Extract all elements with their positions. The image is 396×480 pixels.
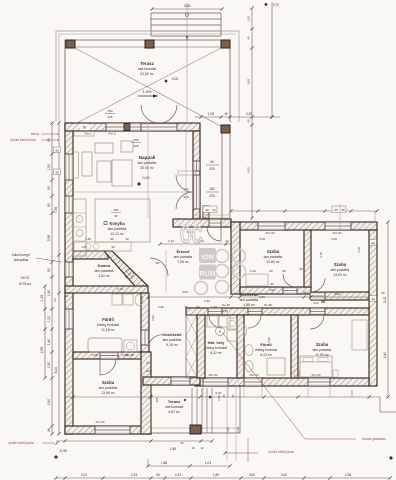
svg-text:95: 95 — [114, 214, 118, 218]
svg-text:13,60 m²: 13,60 m² — [333, 273, 347, 277]
svg-text:40: 40 — [224, 112, 228, 116]
kitchen lower counter — [74, 242, 131, 251]
svg-text:40: 40 — [247, 119, 251, 123]
window terrace french door opening — [141, 123, 177, 131]
door bedroom3 door leaf — [310, 315, 324, 329]
window bedroom3 door — [310, 308, 325, 315]
svg-text:Konyha: Konyha — [109, 221, 125, 226]
nappali inner axis line — [185, 131, 187, 200]
svg-text:-0,55: -0,55 — [59, 449, 67, 453]
window entry door opening — [209, 219, 221, 227]
svg-text:30: 30 — [180, 441, 184, 445]
svg-text:Pre 0: Pre 0 — [108, 132, 116, 136]
svg-text:3,10: 3,10 — [319, 252, 323, 258]
attic shaft — [186, 315, 197, 378]
svg-text:44: 44 — [371, 242, 375, 246]
svg-text:3,40: 3,40 — [281, 473, 287, 477]
svg-text:225: 225 — [107, 115, 112, 119]
door entry door — [207, 227, 221, 241]
dim box 90 on wall — [80, 124, 89, 130]
svg-text:90: 90 — [110, 237, 114, 241]
svg-text:lam.parketta: lam.parketta — [240, 298, 259, 302]
pantry diagonal wall — [104, 251, 148, 293]
svg-text:2,10: 2,10 — [117, 287, 123, 291]
right lower bracket — [379, 397, 381, 412]
svg-text:60: 60 — [269, 269, 273, 273]
svg-text:lam.parketta: lam.parketta — [163, 338, 182, 342]
window bedroom3 south window — [308, 378, 330, 386]
svg-text:2,24: 2,24 — [81, 473, 87, 477]
svg-text:2,43: 2,43 — [175, 473, 181, 477]
wall north bedroom wing — [231, 222, 377, 230]
svg-text:12,50 m²: 12,50 m² — [315, 353, 329, 357]
right edge diamond — [389, 456, 393, 460]
wall bedroom divider — [304, 230, 311, 287]
window bedroom1 door — [283, 287, 297, 294]
window sidelight — [130, 123, 141, 131]
radiator under window — [178, 171, 193, 175]
svg-text:180: 180 — [209, 187, 215, 191]
svg-text:Pe 90: Pe 90 — [264, 303, 272, 307]
svg-text:1,88: 1,88 — [170, 447, 176, 451]
wall bottom rooms north — [186, 308, 369, 315]
svg-text:lam.parketta: lam.parketta — [99, 386, 118, 390]
svg-text:2,00: 2,00 — [267, 337, 271, 343]
svg-text:Fürdő: Fürdő — [102, 317, 114, 322]
boxed labels on left chain — [54, 147, 61, 153]
svg-text:2,90: 2,90 — [47, 399, 51, 406]
hall dim row — [160, 243, 231, 245]
svg-text:4,40: 4,40 — [383, 352, 387, 359]
wall south left wing — [65, 426, 151, 434]
svg-text:Pw 0: Pw 0 — [85, 132, 92, 136]
svg-text:1,40: 1,40 — [47, 339, 51, 346]
svg-text:8,02 m²: 8,02 m² — [210, 351, 222, 355]
svg-text:Szoba: Szoba — [267, 249, 280, 254]
svg-text:2,02: 2,02 — [217, 395, 221, 401]
window bedroom2 door — [310, 292, 325, 300]
svg-text:OC: OC — [180, 223, 202, 249]
post terrace NW — [66, 40, 75, 48]
door bath2 door leaf — [248, 315, 261, 328]
svg-text:lam.parketta: lam.parketta — [138, 161, 157, 165]
svg-text:8,10: 8,10 — [54, 367, 58, 374]
wall corridor south — [143, 377, 200, 385]
terrace steps — [191, 388, 193, 433]
svg-text:RUM: RUM — [200, 271, 216, 278]
svg-text:Közlekedő: Közlekedő — [240, 293, 260, 297]
svg-text:klíma: klíma — [31, 132, 39, 136]
post terrace S post — [190, 425, 201, 434]
wall entry north — [173, 219, 231, 227]
door bedroom1 door leaf — [283, 274, 296, 287]
svg-text:30: 30 — [225, 239, 229, 243]
svg-text:Kamra: Kamra — [98, 263, 111, 268]
wall dining / bedroom1 divider — [231, 222, 240, 294]
svg-text:1,5%: 1,5% — [142, 89, 152, 94]
svg-text:2,10: 2,10 — [168, 239, 174, 243]
svg-text:90: 90 — [196, 305, 200, 309]
svg-text:Pe 90: Pe 90 — [222, 303, 230, 307]
svg-text:100: 100 — [145, 369, 150, 373]
svg-text:180: 180 — [114, 208, 119, 212]
svg-text:Ø 25 cm: Ø 25 cm — [19, 282, 31, 286]
svg-text:3,00: 3,00 — [331, 237, 337, 241]
svg-text:Szoba: Szoba — [334, 262, 347, 267]
dimension chain vertical — [58, 123, 60, 434]
svg-text:240: 240 — [269, 288, 274, 292]
svg-text:2,02: 2,02 — [151, 315, 155, 321]
svg-text:3,00: 3,00 — [334, 292, 340, 296]
svg-text:1,06: 1,06 — [208, 112, 214, 116]
svg-text:90: 90 — [270, 282, 274, 286]
door terrace leaf R — [159, 105, 177, 123]
svg-text:13,06 m²: 13,06 m² — [101, 391, 115, 395]
wall living east / entry west — [193, 131, 200, 219]
svg-text:205: 205 — [155, 397, 159, 402]
svg-text:mel.burkolat: mel.burkolat — [165, 405, 184, 409]
wall left exterior — [65, 123, 73, 434]
svg-text:90: 90 — [47, 268, 51, 272]
window bedroom4 door — [100, 352, 118, 359]
window bedroom4 south — [95, 426, 130, 434]
svg-text:4,87 m²: 4,87 m² — [168, 410, 180, 414]
mullion — [124, 124, 130, 131]
svg-text:5,16 m²: 5,16 m² — [166, 343, 178, 347]
window utility door — [208, 308, 222, 315]
svg-text:2,95: 2,95 — [47, 235, 51, 242]
window terrace door from corridor — [171, 377, 190, 385]
svg-text:60: 60 — [146, 361, 150, 365]
door living leaf up — [176, 175, 193, 192]
svg-text:2,42: 2,42 — [204, 299, 210, 303]
svg-text:3,00: 3,00 — [249, 473, 255, 477]
post terrace SE — [221, 125, 230, 133]
svg-text:2,34: 2,34 — [131, 473, 137, 477]
svg-text:90: 90 — [47, 186, 51, 190]
svg-text:1,20: 1,20 — [247, 16, 251, 22]
svg-text:90: 90 — [111, 245, 115, 249]
svg-text:0,02: 0,02 — [172, 77, 179, 81]
svg-text:W: W — [321, 299, 325, 304]
svg-text:3,60: 3,60 — [259, 295, 265, 299]
svg-text:mel.burkolat: mel.burkolat — [138, 67, 157, 71]
svg-text:4,52: 4,52 — [247, 167, 251, 173]
level mark +0,02 — [164, 79, 168, 83]
svg-text:ION: ION — [201, 255, 213, 262]
svg-text:1,03: 1,03 — [205, 461, 211, 465]
right upper vertical dim — [271, 2, 273, 117]
svg-text:11,18 m²: 11,18 m² — [101, 328, 115, 332]
svg-text:épület körüli járda: épület körüli járda — [8, 441, 33, 445]
svg-text:90: 90 — [303, 291, 307, 295]
window kitchen west window — [65, 196, 73, 213]
svg-text:150: 150 — [133, 138, 138, 142]
bath1 fixtures — [112, 294, 122, 305]
kitchen counter — [73, 199, 86, 256]
svg-text:3,18: 3,18 — [236, 427, 240, 433]
svg-text:33,08 m²: 33,08 m² — [140, 166, 154, 170]
svg-text:utánpótlás: utánpótlás — [14, 258, 29, 262]
svg-text:44: 44 — [53, 298, 57, 302]
wall right exterior — [369, 230, 377, 386]
wall bath2 / bedroom3 divider — [291, 315, 298, 378]
svg-text:12: 12 — [200, 446, 204, 450]
svg-text:210: 210 — [313, 301, 318, 305]
terrace beam lines — [75, 46, 145, 48]
svg-text:Pre 90: Pre 90 — [333, 231, 342, 235]
svg-text:SH 20: SH 20 — [21, 276, 30, 280]
bedroom3 bed — [300, 356, 332, 377]
open-plan separation — [73, 191, 193, 193]
dimension chain vertical — [387, 222, 389, 397]
window bath1 west window — [65, 309, 73, 329]
svg-text:10,80 m²: 10,80 m² — [266, 260, 280, 264]
wall bath1 south — [73, 352, 141, 359]
svg-text:1,50: 1,50 — [47, 164, 51, 171]
stairs to terrace — [151, 12, 221, 14]
svg-text:1,60: 1,60 — [85, 237, 91, 241]
svg-text:Pre 60: Pre 60 — [312, 373, 321, 377]
svg-text:225: 225 — [133, 144, 138, 148]
svg-text:3,15: 3,15 — [357, 247, 361, 253]
dimension chain — [152, 8, 222, 10]
svg-text:meleg burkolat: meleg burkolat — [205, 346, 227, 350]
svg-text:90: 90 — [282, 269, 286, 273]
svg-text:meleg burkolat: meleg burkolat — [255, 348, 277, 352]
post terrace NE — [221, 40, 230, 48]
radiator under window — [74, 132, 94, 137]
svg-text:2,40: 2,40 — [122, 353, 128, 357]
svg-text:Pre 90: Pre 90 — [96, 420, 105, 424]
svg-text:Nappali: Nappali — [139, 155, 156, 160]
door utility door leaf — [209, 315, 222, 328]
svg-text:lam.parketta: lam.parketta — [95, 269, 114, 273]
svg-text:Szoba: Szoba — [102, 380, 115, 385]
svg-text:3,84: 3,84 — [247, 79, 251, 85]
wall north living wing — [65, 123, 200, 131]
washer dryer in utility — [227, 318, 237, 329]
svg-text:Terasz: Terasz — [140, 61, 154, 66]
svg-text:1,82: 1,82 — [158, 305, 164, 309]
wall bath1 east upper — [141, 293, 149, 352]
north wing window dim line — [231, 210, 377, 212]
svg-text:7,65 m²: 7,65 m² — [177, 260, 189, 264]
wall shaft east / utility west — [197, 315, 205, 378]
wall pantry north — [73, 251, 108, 259]
svg-text:1,50: 1,50 — [47, 362, 51, 369]
svg-text:40: 40 — [191, 446, 195, 450]
svg-text:90: 90 — [210, 160, 214, 164]
wall bedroom2 south — [311, 292, 369, 300]
window entry west window — [193, 161, 200, 171]
svg-text:12,13 m²: 12,13 m² — [110, 232, 124, 236]
diagonal door arc — [150, 258, 168, 276]
corner basin in pantry — [125, 270, 134, 279]
svg-text:225: 225 — [209, 167, 215, 171]
svg-text:2,39: 2,39 — [246, 112, 252, 116]
window pantry vent — [65, 262, 73, 277]
svg-text:44: 44 — [371, 298, 375, 302]
wall utility / bath2 divider — [237, 315, 244, 378]
svg-text:1,35: 1,35 — [40, 295, 44, 302]
svg-text:44: 44 — [64, 294, 68, 298]
corridor dim chain — [148, 296, 369, 298]
svg-text:külső levegő: külső levegő — [12, 253, 30, 257]
door bedroom4 door leaf — [100, 359, 116, 375]
radiator left — [74, 152, 79, 178]
svg-text:1,20: 1,20 — [47, 316, 51, 323]
entry jamb stub — [203, 206, 209, 218]
svg-text:3,00: 3,00 — [259, 237, 265, 241]
svg-text:Szoba: Szoba — [316, 342, 329, 347]
stair axis arrow — [186, 3, 188, 122]
svg-text:92: 92 — [381, 291, 385, 295]
terrace roof diagonal 2 — [73, 48, 221, 125]
bedroom1 wardrobe — [246, 274, 268, 286]
window utility south — [203, 378, 228, 386]
svg-text:95: 95 — [55, 171, 59, 175]
door living leaf dn — [176, 192, 193, 209]
svg-text:4,62 m²: 4,62 m² — [98, 274, 110, 278]
window extension drops — [202, 386, 204, 397]
svg-text:3,15: 3,15 — [383, 297, 387, 304]
svg-text:-0,02: -0,02 — [215, 391, 222, 395]
bottom dim chains — [56, 440, 212, 442]
svg-text:1,20: 1,20 — [211, 305, 217, 309]
svg-text:Pre 90: Pre 90 — [209, 373, 218, 377]
window bedroom2 north — [325, 222, 351, 230]
door bath1 door — [149, 330, 162, 344]
svg-text:44: 44 — [47, 428, 51, 432]
svg-text:Pre 90: Pre 90 — [266, 231, 275, 235]
sofa group — [95, 143, 113, 153]
svg-text:90: 90 — [55, 149, 59, 153]
svg-text:94: 94 — [156, 473, 160, 477]
window living north 1 — [106, 123, 124, 131]
dimension chain vertical — [51, 123, 53, 434]
window bedroom1 north — [258, 222, 285, 230]
dimension chain vertical — [44, 286, 46, 378]
svg-text:lam.parketta: lam.parketta — [174, 255, 193, 259]
porch top dim — [195, 116, 280, 118]
svg-text:60: 60 — [299, 267, 303, 271]
svg-text:2,95: 2,95 — [40, 347, 44, 354]
utility fixtures — [207, 316, 218, 327]
svg-text:70: 70 — [184, 305, 188, 309]
svg-text:lam.parketta: lam.parketta — [313, 348, 332, 352]
svg-text:lam.parketta: lam.parketta — [264, 255, 283, 259]
svg-text:Érkező: Érkező — [176, 249, 190, 254]
svg-text:90: 90 — [47, 203, 51, 207]
svg-text:Hát. hely: Hát. hely — [208, 340, 225, 345]
window bath2 door — [248, 308, 262, 315]
svg-text:51,82 m²: 51,82 m² — [140, 72, 154, 76]
post terrace N mid — [145, 40, 154, 48]
svg-text:turbós gázkazán: turbós gázkazán — [362, 437, 386, 441]
svg-text:40: 40 — [247, 36, 251, 40]
svg-text:0,00: 0,00 — [143, 176, 150, 180]
svg-text:4,40: 4,40 — [226, 427, 230, 433]
window bath2 south — [244, 378, 262, 386]
svg-text:2,10: 2,10 — [250, 269, 256, 273]
svg-text:lam.parketta: lam.parketta — [331, 268, 350, 272]
door terrace leaf L — [141, 105, 159, 123]
svg-text:150: 150 — [107, 109, 112, 113]
svg-text:3,55: 3,55 — [184, 4, 191, 8]
svg-text:7,55: 7,55 — [54, 207, 58, 214]
svg-text:épület körüli járda: épület körüli járda — [268, 450, 293, 454]
svg-text:90: 90 — [212, 208, 216, 212]
porch edge — [221, 133, 223, 218]
bath2 fixtures — [244, 325, 247, 337]
svg-text:60°: 60° — [156, 261, 160, 265]
window living west window — [65, 154, 73, 180]
svg-text:90: 90 — [205, 208, 209, 212]
svg-text:lam.parketta: lam.parketta — [108, 227, 127, 231]
svg-text:1,00: 1,00 — [92, 353, 98, 357]
svg-text:225: 225 — [209, 194, 215, 198]
svg-text:6,03 m²: 6,03 m² — [260, 353, 272, 357]
wall pantry south / bath1 north — [65, 286, 148, 293]
svg-text:90: 90 — [341, 208, 345, 212]
vertical dims right of terrace — [226, 386, 228, 461]
svg-text:1,88: 1,88 — [161, 461, 167, 465]
door bedroom2 door leaf — [311, 278, 325, 292]
svg-text:2,36: 2,36 — [345, 473, 351, 477]
window french door living — [193, 175, 200, 209]
svg-text:0,70: 0,70 — [273, 3, 279, 7]
terrace slab edge — [65, 40, 230, 122]
svg-text:4,02: 4,02 — [182, 290, 188, 294]
wall south bedroom wing — [195, 378, 369, 386]
svg-text:Közlekedő: Közlekedő — [163, 333, 183, 337]
wall bedroom1 south — [240, 287, 311, 294]
svg-text:Terasz: Terasz — [168, 399, 180, 404]
svg-text:90: 90 — [334, 208, 338, 212]
svg-text:4,88 m²: 4,88 m² — [243, 303, 255, 307]
lower terrace outline — [151, 385, 240, 433]
svg-text:1,90: 1,90 — [47, 290, 51, 297]
svg-text:90: 90 — [83, 126, 87, 130]
window bath1 door opening — [141, 330, 149, 345]
svg-text:1,89: 1,89 — [213, 473, 219, 477]
svg-text:épület körüli járda: épület körüli járda — [10, 138, 35, 142]
terrace roof overhang outline — [56, 31, 239, 122]
svg-text:5,00: 5,00 — [222, 309, 228, 313]
terrace roof diagonal 1 — [75, 48, 226, 129]
wall bedroom4 east — [141, 352, 151, 434]
svg-text:meleg burkolat: meleg burkolat — [97, 323, 119, 327]
svg-text:30: 30 — [125, 237, 129, 241]
